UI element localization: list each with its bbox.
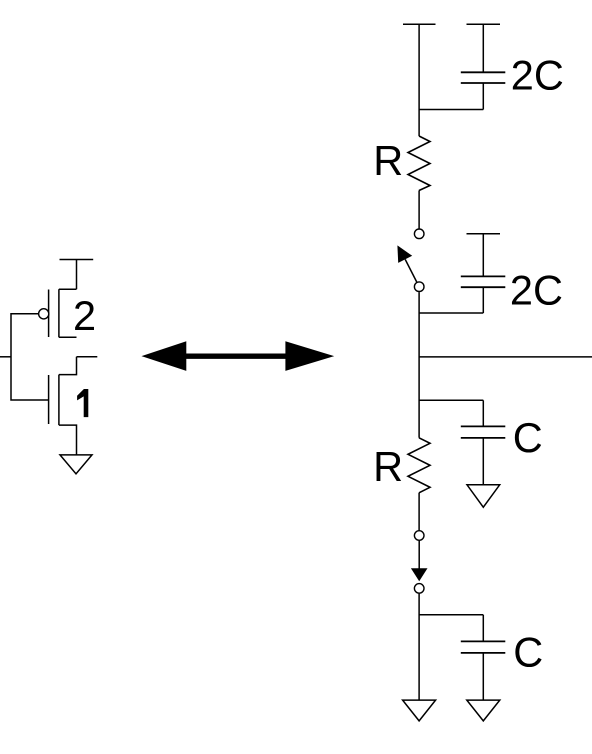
wire (gate connection) [11, 314, 49, 400]
power rail top-bar (right circuit input) [403, 23, 436, 25]
wire (output line to right edge) [419, 356, 592, 358]
capacitor C (second) [461, 615, 506, 700]
svg-text:2C: 2C [511, 52, 564, 99]
ground (bottom left of right circuit) [403, 700, 436, 721]
capacitor 2C (top) [461, 24, 506, 109]
transistor Q1 (NMOS) [49, 357, 77, 455]
capacitor C (first) [461, 400, 506, 485]
svg-text:R: R [373, 443, 403, 490]
wire (junction capacitor 2C second to main) [419, 312, 483, 314]
ground (below capacitor C second) [467, 700, 500, 721]
svg-text:C: C [513, 414, 543, 461]
wire (input stub) [0, 356, 11, 358]
wire (main vertical, switch S1 to resistor R2) [418, 292, 420, 438]
switch S1 node circle (bottom) [414, 282, 424, 292]
svg-text:C: C [513, 628, 543, 675]
wire (main vertical, top to resistor R1) [418, 24, 420, 136]
power rail top-bar (left circuit) [60, 259, 94, 261]
wire (rail to PMOS drain) [76, 260, 78, 290]
wire (switch S2 to bottom junction) [418, 594, 420, 701]
arrow (bidirectional) [142, 341, 335, 371]
resistor R2 [408, 438, 430, 493]
svg-text:R: R [373, 137, 403, 184]
wire (R2 to switch S2) [418, 493, 420, 531]
wire (junction to capacitor C first) [419, 399, 483, 401]
switch S1 blade with arrowhead [405, 259, 417, 282]
transistor Q2 (PMOS) [39, 289, 77, 337]
ground (below capacitor C first) [467, 485, 500, 507]
wire (R1 to switch S1) [418, 191, 420, 229]
switch S2 node circle (top) [414, 531, 424, 541]
svg-text:2: 2 [73, 292, 96, 339]
wire (junction to capacitor C second) [419, 614, 483, 616]
wire (output stub) [77, 356, 98, 358]
wire (junction to capacitor 2C top) [419, 109, 483, 111]
switch S2 node circle (bottom) [414, 584, 424, 594]
switch S1 node circle (top) [414, 229, 424, 239]
capacitor 2C (second) [461, 234, 506, 313]
svg-text:2C: 2C [510, 266, 563, 313]
switch S2 blade with arrowhead [418, 541, 420, 569]
label 1 (NMOS) [77, 389, 88, 417]
resistor R1 [408, 136, 430, 191]
ground (left circuit) [60, 455, 92, 474]
